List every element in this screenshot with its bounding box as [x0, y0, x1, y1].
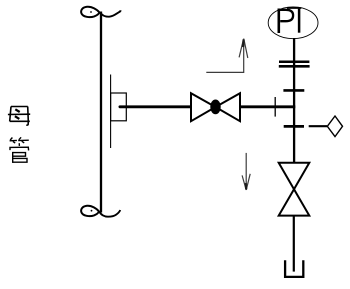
PI letter I with top serif bar	[287, 8, 301, 33]
top pipe-break squiggle tail	[100, 10, 121, 16]
tap boss parallel thin line	[110, 75, 112, 149]
label 管 (header-pipe text, char 2)	[10, 137, 29, 163]
globe valve V1 left triangle	[191, 93, 216, 121]
drain valve V2 bottom triangle	[279, 189, 310, 215]
globe valve V1 filled disc	[210, 100, 220, 115]
bottom pipe-break squiggle loop	[81, 206, 99, 216]
double isolation bars below PI	[279, 60, 309, 63]
single bar above junction	[283, 89, 304, 92]
down arrow	[242, 153, 250, 190]
top pipe-break squiggle loop	[81, 7, 99, 17]
bar below junction (diamond branch)	[284, 125, 304, 128]
PI instrument bubble ellipse	[268, 7, 318, 39]
PI letter P	[279, 9, 293, 34]
tap boss rectangle	[111, 93, 127, 121]
globe valve V1 right triangle	[216, 93, 241, 121]
drain pipe line	[293, 216, 295, 272]
drain valve V2 top triangle	[279, 163, 310, 189]
bottom pipe-break squiggle tail	[100, 210, 121, 217]
impulse pipe right segment	[240, 105, 296, 108]
header pipe vertical line	[100, 12, 102, 213]
up arrow	[206, 39, 248, 73]
drain funnel (open container)	[285, 260, 303, 277]
instrument vertical line (upper)	[293, 38, 295, 163]
connector line to diamond	[309, 125, 327, 127]
tick on impulse pipe	[274, 97, 276, 117]
label 母 (header-pipe text, char 1)	[8, 107, 30, 126]
diamond symbol	[327, 116, 342, 137]
impulse pipe left segment	[120, 105, 192, 108]
